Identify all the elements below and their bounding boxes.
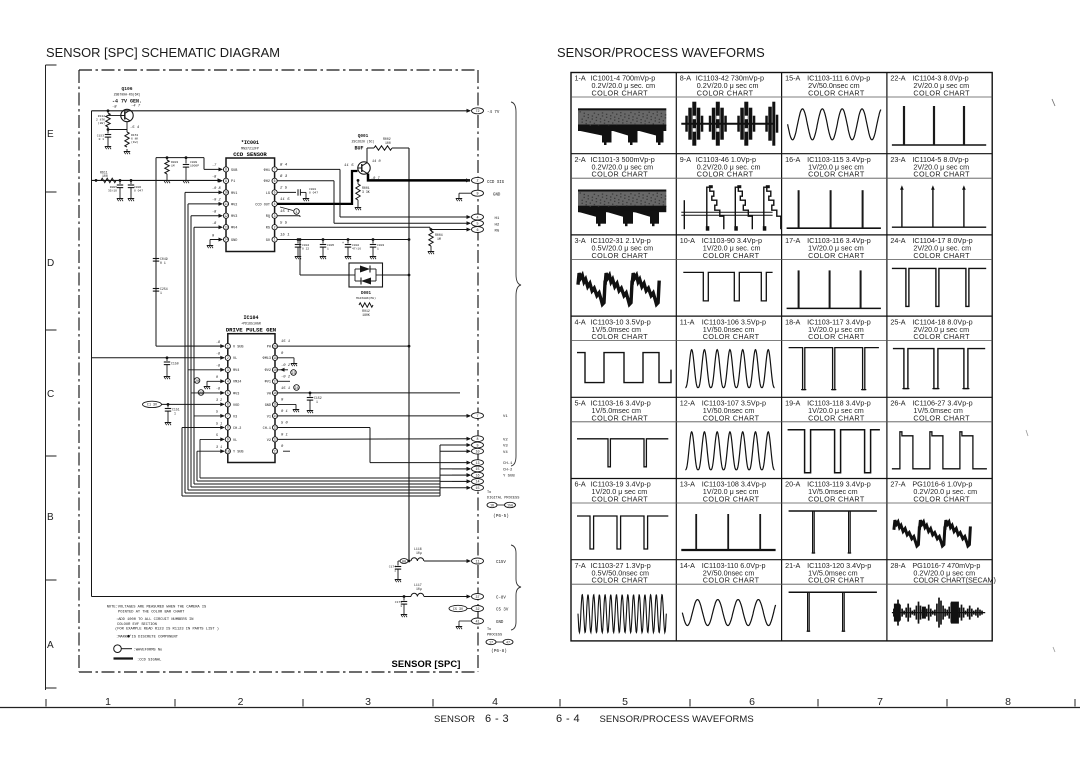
svg-text:17: 17	[273, 380, 277, 384]
svg-text:(2W): (2W)	[98, 121, 105, 125]
svg-text:0: 0	[216, 376, 218, 380]
svg-text:-5 4: -5 4	[130, 126, 140, 130]
svg-text:5: 5	[216, 411, 218, 415]
svg-text:CCD SIG: CCD SIG	[487, 181, 505, 185]
svg-text:COLOR CHART: COLOR CHART	[913, 170, 970, 179]
svg-text:10-A: 10-A	[680, 236, 695, 245]
svg-text:15-A: 15-A	[785, 74, 800, 83]
svg-text:MA150WK(M8): MA150WK(M8)	[356, 296, 376, 300]
svg-text:ΦH2: ΦH2	[264, 179, 270, 184]
svg-text:(P6-5): (P6-5)	[493, 514, 509, 519]
svg-text:150: 150	[507, 504, 513, 508]
svg-text:0: 0	[281, 352, 284, 356]
svg-text:ΦV2: ΦV2	[265, 368, 271, 373]
svg-text:12: 12	[273, 438, 277, 442]
svg-text:C003: C003	[377, 244, 384, 247]
svg-text:19-A: 19-A	[785, 399, 800, 408]
svg-text:V3: V3	[503, 445, 508, 449]
svg-text:SUB: SUB	[231, 169, 237, 173]
svg-text:8-A: 8-A	[680, 74, 691, 83]
svg-text:0 1: 0 1	[99, 138, 105, 141]
svg-text:CH-2: CH-2	[503, 469, 513, 473]
svg-text:16: 16	[475, 474, 479, 478]
svg-text:21-A: 21-A	[785, 561, 800, 570]
svg-text:ΦV1: ΦV1	[231, 191, 237, 196]
svg-text:D005: D005	[110, 186, 117, 189]
svg-text:13-A: 13-A	[680, 480, 695, 489]
svg-text:C5 3V: C5 3V	[453, 608, 464, 612]
svg-text:COLOR CHART: COLOR CHART	[703, 576, 760, 585]
svg-text:11: 11	[475, 560, 479, 564]
svg-text:14: 14	[273, 414, 277, 418]
svg-text:23-A: 23-A	[890, 155, 905, 164]
svg-text:Q001: Q001	[358, 134, 369, 139]
svg-text:14 0: 14 0	[372, 160, 381, 164]
svg-text:1: 1	[394, 570, 396, 573]
svg-text:ΦH1: ΦH1	[264, 168, 270, 173]
svg-text:-0 2: -0 2	[212, 199, 221, 203]
svg-text:24: 24	[294, 387, 298, 391]
svg-text:C150: C150	[171, 362, 179, 366]
svg-text:COLOR CHART: COLOR CHART	[592, 89, 649, 98]
svg-text:5 5: 5 5	[280, 221, 288, 225]
svg-text:19: 19	[273, 356, 277, 360]
svg-text:9: 9	[476, 193, 478, 197]
svg-text:3 1: 3 1	[216, 446, 222, 450]
svg-text:13: 13	[224, 225, 228, 229]
svg-text:ΦV4: ΦV4	[231, 226, 237, 231]
svg-text:6: 6	[476, 229, 478, 233]
svg-text:0: 0	[212, 234, 215, 238]
svg-text:15 1: 15 1	[281, 340, 290, 344]
svg-text:-7: -7	[212, 164, 217, 168]
svg-text:2: 2	[476, 180, 478, 184]
svg-text:4-A: 4-A	[575, 317, 586, 326]
svg-text:-8: -8	[216, 365, 220, 369]
svg-text:15 1: 15 1	[280, 210, 290, 214]
svg-text:ΦV3: ΦV3	[231, 214, 237, 219]
svg-text:13: 13	[273, 426, 277, 430]
svg-text:A: A	[47, 640, 54, 651]
svg-text:(P6-8): (P6-8)	[491, 649, 507, 654]
svg-text:PH: PH	[267, 346, 271, 350]
svg-text:4: 4	[227, 380, 229, 384]
svg-text:6 - 3: 6 - 3	[485, 713, 509, 725]
svg-text:100: 100	[385, 141, 391, 145]
svg-text:C-8V: C-8V	[496, 597, 506, 601]
svg-text:SENSOR/PROCESS WAVEFORMS: SENSOR/PROCESS WAVEFORMS	[600, 714, 754, 725]
svg-text:COLOR CHART: COLOR CHART	[808, 332, 865, 341]
svg-text:1000P: 1000P	[190, 165, 199, 168]
svg-text:14: 14	[475, 481, 479, 485]
svg-text:1: 1	[295, 211, 297, 215]
svg-text:COLOR CHART(SECAM): COLOR CHART(SECAM)	[913, 576, 996, 585]
svg-text:COLOR CHART: COLOR CHART	[592, 576, 649, 585]
svg-text:IC104: IC104	[243, 315, 258, 321]
svg-text:5-A: 5-A	[575, 399, 586, 408]
svg-text:0 1: 0 1	[281, 433, 288, 437]
svg-text:VH: VH	[267, 392, 271, 396]
svg-text:COLOR CHART: COLOR CHART	[808, 495, 865, 504]
svg-text:CCD SENSOR: CCD SENSOR	[233, 151, 267, 158]
svg-text:COLOR CHART: COLOR CHART	[913, 495, 970, 504]
svg-text:-8: -8	[216, 388, 220, 392]
svg-text:3: 3	[365, 696, 371, 708]
svg-text:B: B	[47, 512, 54, 523]
svg-text:ΦV4: ΦV4	[233, 368, 239, 373]
svg-text:6: 6	[227, 403, 229, 407]
svg-text:3: 3	[274, 214, 276, 218]
svg-text:1-A: 1-A	[575, 74, 586, 83]
svg-text:2: 2	[274, 225, 276, 229]
svg-text:C174: C174	[389, 566, 396, 569]
svg-text:8: 8	[227, 426, 229, 430]
svg-text:CH-1: CH-1	[263, 427, 271, 431]
svg-text:*IC001: *IC001	[241, 140, 259, 146]
svg-text:11-A: 11-A	[680, 317, 695, 326]
svg-text:2SC2620 (6C): 2SC2620 (6C)	[352, 140, 375, 144]
svg-text:C006: C006	[134, 186, 141, 189]
svg-text:4: 4	[274, 202, 276, 206]
svg-text:18-A: 18-A	[785, 317, 800, 326]
svg-text:C004: C004	[302, 244, 309, 247]
svg-text:3 2: 3 2	[216, 399, 222, 403]
svg-text:11: 11	[224, 202, 228, 206]
svg-text:8 4: 8 4	[280, 164, 288, 168]
svg-text:COLOR CHART: COLOR CHART	[703, 495, 760, 504]
svg-text:NOTE:VOLTAGES ARE MEASURED WHE: NOTE:VOLTAGES ARE MEASURED WHEN THE CAME…	[107, 606, 207, 610]
svg-text:4: 4	[476, 216, 478, 220]
svg-text:C: C	[47, 389, 54, 400]
svg-text:7: 7	[274, 168, 276, 172]
svg-text:0: 0	[281, 445, 284, 449]
svg-text:0 1: 0 1	[281, 410, 288, 414]
svg-text:35/10: 35/10	[108, 189, 117, 193]
svg-text:5: 5	[622, 696, 628, 708]
svg-text:8 3: 8 3	[280, 175, 288, 179]
svg-text:C1 3V: C1 3V	[147, 404, 158, 408]
svg-text:D: D	[47, 258, 54, 269]
svg-text:72: 72	[475, 110, 479, 114]
svg-text:COLOR CHART: COLOR CHART	[913, 413, 970, 422]
svg-text:2: 2	[227, 356, 229, 360]
svg-text:-8: -8	[216, 353, 220, 357]
svg-text:27-A: 27-A	[890, 480, 905, 489]
svg-text:COLOR CHART: COLOR CHART	[913, 332, 970, 341]
svg-text:COLOR CHART: COLOR CHART	[808, 251, 865, 260]
svg-text:1: 1	[160, 291, 162, 295]
svg-text:CH-2: CH-2	[233, 427, 241, 431]
svg-text:00: 00	[402, 560, 406, 564]
svg-text:47/16: 47/16	[352, 246, 361, 250]
svg-text:32: 32	[475, 608, 479, 612]
svg-text:GND: GND	[493, 193, 501, 197]
svg-text:VM24: VM24	[233, 381, 241, 385]
svg-text:1: 1	[400, 605, 402, 608]
svg-text:1: 1	[105, 696, 111, 708]
svg-text:16-A: 16-A	[785, 155, 800, 164]
svg-text:8: 8	[225, 168, 227, 172]
svg-text:-8: -8	[112, 106, 117, 110]
svg-text:10μ: 10μ	[416, 587, 422, 591]
svg-text:17-A: 17-A	[785, 236, 800, 245]
svg-text:H2: H2	[495, 223, 500, 227]
svg-text:10μ: 10μ	[416, 551, 422, 555]
svg-text:COLOR CHART: COLOR CHART	[592, 251, 649, 260]
svg-text:GND: GND	[265, 404, 271, 408]
svg-text:V1: V1	[503, 415, 508, 419]
svg-text:MN37212FP: MN37212FP	[241, 147, 259, 151]
svg-text:15 1: 15 1	[280, 234, 290, 238]
svg-text:1: 1	[377, 247, 379, 250]
svg-text:COLOR CHART: COLOR CHART	[808, 413, 865, 422]
svg-text:To: To	[487, 491, 491, 495]
svg-text:C5 3V: C5 3V	[496, 609, 509, 613]
svg-text:6 - 4: 6 - 4	[556, 713, 580, 725]
svg-text:D001: D001	[361, 292, 372, 296]
svg-text:COLOR CHART: COLOR CHART	[697, 170, 754, 179]
svg-text:ΦM13: ΦM13	[263, 356, 271, 361]
svg-text:DIGITAL PROCESS: DIGITAL PROCESS	[487, 497, 519, 501]
svg-text:9-A: 9-A	[680, 155, 691, 164]
svg-text:RQ: RQ	[266, 215, 270, 219]
svg-text:20: 20	[195, 380, 199, 384]
svg-text:12: 12	[224, 214, 228, 218]
svg-text:GND: GND	[231, 239, 237, 243]
svg-text:9: 9	[225, 179, 227, 183]
svg-text:100: 100	[102, 174, 108, 178]
svg-text:41: 41	[475, 620, 479, 624]
svg-text:15 1: 15 1	[281, 387, 290, 391]
svg-text:23: 23	[291, 372, 295, 376]
svg-text:16: 16	[490, 504, 494, 508]
svg-text:COLOR CHART: COLOR CHART	[592, 332, 649, 341]
svg-text:1: 1	[174, 412, 176, 416]
svg-text:10: 10	[224, 191, 228, 195]
svg-text:Y SUB: Y SUB	[233, 451, 244, 455]
svg-text:COLOR CHART: COLOR CHART	[913, 251, 970, 260]
svg-text:1: 1	[327, 247, 329, 250]
svg-text:37: 37	[475, 596, 479, 600]
svg-text:0 22: 0 22	[302, 247, 309, 250]
svg-text:14-A: 14-A	[680, 561, 695, 570]
svg-text:2SB709A-RS(6R): 2SB709A-RS(6R)	[114, 93, 141, 97]
svg-text:11: 11	[273, 449, 277, 453]
svg-text::MARK °IS DISCRETE COMPONE: :MARK °IS DISCRETE COMPONENT	[116, 635, 179, 640]
svg-text:0 047: 0 047	[134, 190, 143, 193]
svg-text:11 5: 11 5	[280, 198, 290, 202]
svg-text:-8: -8	[212, 211, 217, 215]
svg-text:P1: P1	[231, 180, 235, 184]
svg-text:+PD16510GR: +PD16510GR	[241, 322, 261, 326]
svg-text:24-A: 24-A	[890, 236, 905, 245]
svg-text:47: 47	[506, 641, 510, 645]
svg-text:-0 7: -0 7	[371, 177, 380, 181]
svg-text:LG: LG	[266, 192, 270, 196]
svg-text:C173: C173	[395, 601, 402, 604]
svg-text:13: 13	[475, 462, 479, 466]
svg-text:BUF: BUF	[354, 146, 363, 152]
svg-text:11 5: 11 5	[344, 164, 354, 168]
svg-text:(FOR EXAMPLE READ R123 IS R112: (FOR EXAMPLE READ R123 IS R1123 IN PARTS…	[115, 627, 219, 632]
svg-text:7: 7	[227, 414, 229, 418]
svg-text:SENSOR [SPC]: SENSOR [SPC]	[392, 658, 461, 669]
svg-text:0 1: 0 1	[160, 261, 166, 265]
svg-text:10: 10	[475, 451, 479, 455]
svg-text:Y SUB: Y SUB	[503, 475, 515, 479]
svg-text:COLOR CHART: COLOR CHART	[913, 89, 970, 98]
svg-text:1M: 1M	[437, 237, 441, 241]
svg-text:8: 8	[1005, 696, 1011, 708]
svg-text:1M: 1M	[171, 165, 175, 168]
svg-text:V1: V1	[267, 415, 271, 419]
svg-text::WAVEFORMS No: :WAVEFORMS No	[134, 649, 163, 653]
svg-text:COLOR CHART: COLOR CHART	[808, 576, 865, 585]
svg-text:ΦV1: ΦV1	[265, 380, 271, 385]
svg-text:C005: C005	[327, 244, 334, 247]
svg-text:-4 7: -4 7	[131, 105, 141, 109]
svg-text:5: 5	[274, 191, 276, 195]
svg-text:7-A: 7-A	[575, 561, 586, 570]
svg-text:1: 1	[227, 344, 229, 348]
svg-text:GO: GO	[266, 239, 270, 243]
svg-text:COLOR CHART: COLOR CHART	[592, 413, 649, 422]
svg-text:1: 1	[274, 238, 276, 242]
svg-text:7: 7	[877, 696, 883, 708]
svg-text:ΦV2: ΦV2	[231, 202, 237, 207]
svg-text:V4: V4	[503, 451, 508, 455]
svg-text:To: To	[487, 628, 491, 632]
svg-text:COLOR CHART: COLOR CHART	[703, 332, 760, 341]
svg-text:2-A: 2-A	[575, 155, 586, 164]
svg-text::ADD 1000 TO ALL CIRCUIT NUMBE: :ADD 1000 TO ALL CIRCUIT NUMBERS IN	[116, 618, 193, 622]
svg-text:PROCESS: PROCESS	[487, 634, 502, 638]
svg-text:COLOR CHART: COLOR CHART	[697, 89, 754, 98]
svg-text:20-A: 20-A	[785, 480, 800, 489]
svg-text:180K: 180K	[362, 313, 370, 317]
svg-text:12-A: 12-A	[680, 399, 695, 408]
svg-text:C002: C002	[352, 244, 359, 247]
svg-text:C001: C001	[309, 188, 316, 191]
svg-text:V2: V2	[503, 438, 508, 442]
svg-text:0 047: 0 047	[309, 192, 318, 195]
svg-text:-4 7V: -4 7V	[487, 111, 500, 115]
svg-text:(1W): (1W)	[131, 140, 138, 144]
svg-text:15: 15	[475, 468, 479, 472]
svg-text:-8: -8	[216, 341, 220, 345]
svg-text:COLOR CHART: COLOR CHART	[808, 89, 865, 98]
svg-text:2: 2	[238, 696, 244, 708]
svg-text:ΦV3: ΦV3	[233, 391, 239, 396]
svg-text:-8: -8	[212, 222, 217, 226]
svg-text:0: 0	[281, 398, 284, 402]
svg-text:1: 1	[316, 400, 318, 404]
svg-text:15: 15	[475, 487, 479, 491]
svg-text:VL: VL	[233, 439, 237, 443]
svg-text:9: 9	[476, 444, 478, 448]
svg-text:SENSOR/PROCESS WAVEFORMS: SENSOR/PROCESS WAVEFORMS	[557, 45, 765, 60]
svg-text:2 5: 2 5	[280, 187, 288, 191]
svg-text:V SUB: V SUB	[233, 346, 244, 350]
svg-text:14: 14	[224, 238, 228, 242]
svg-text:17: 17	[489, 641, 493, 645]
svg-text:H1: H1	[495, 217, 500, 221]
svg-text:V3: V3	[233, 415, 237, 419]
svg-text:3-A: 3-A	[575, 236, 586, 245]
svg-text:6: 6	[749, 696, 755, 708]
svg-text:COLOR CHART: COLOR CHART	[808, 170, 865, 179]
svg-text:RG: RG	[495, 230, 500, 234]
svg-text:SENSOR: SENSOR	[434, 714, 475, 725]
svg-text:POINTED AT THE COLOR BAR CHART: POINTED AT THE COLOR BAR CHART	[118, 610, 185, 614]
svg-text:6: 6	[274, 179, 276, 183]
svg-text:VOD: VOD	[233, 404, 239, 408]
svg-text:5: 5	[227, 391, 229, 395]
svg-text:18: 18	[273, 368, 277, 372]
svg-text:25-A: 25-A	[890, 317, 905, 326]
svg-text:R003: R003	[171, 161, 178, 164]
svg-text:3: 3	[227, 368, 229, 372]
svg-text:C15V: C15V	[496, 561, 506, 565]
svg-text::CCD SIGNAL: :CCD SIGNAL	[137, 658, 161, 662]
svg-text:GND: GND	[496, 621, 504, 625]
svg-text:RS: RS	[266, 227, 270, 231]
svg-text:5: 5	[476, 223, 478, 227]
svg-text:VL: VL	[233, 357, 237, 361]
svg-text:+: +	[342, 242, 344, 246]
svg-text:DRIVE PULSE GEN: DRIVE PULSE GEN	[226, 327, 276, 334]
svg-text:8: 8	[476, 438, 478, 442]
svg-text:E: E	[47, 129, 54, 140]
svg-text:-0 2: -0 2	[281, 375, 291, 379]
svg-text:9: 9	[227, 438, 229, 442]
svg-text:5 0: 5 0	[281, 422, 289, 426]
svg-text:-0 2: -0 2	[281, 364, 291, 368]
svg-text:CCD OUT: CCD OUT	[255, 203, 270, 207]
svg-text:6-A: 6-A	[575, 480, 586, 489]
svg-text:SENSOR [SPC] SCHEMATIC DIAGRAM: SENSOR [SPC] SCHEMATIC DIAGRAM	[46, 45, 280, 60]
svg-text:V2: V2	[267, 439, 271, 443]
svg-text:-0 8: -0 8	[212, 187, 221, 191]
svg-text:COLOR CHART: COLOR CHART	[592, 495, 649, 504]
svg-text:COLOR CHART: COLOR CHART	[703, 251, 760, 260]
svg-text:10: 10	[226, 449, 230, 453]
svg-text:3 3K: 3 3K	[362, 190, 370, 194]
svg-text:C009: C009	[190, 161, 197, 164]
svg-text:16: 16	[273, 391, 277, 395]
svg-text:-8: -8	[212, 176, 217, 180]
svg-text:COLOR CHART: COLOR CHART	[703, 413, 760, 422]
svg-text:28-A: 28-A	[890, 561, 905, 570]
svg-text:22-A: 22-A	[890, 74, 905, 83]
svg-text:Q106: Q106	[121, 86, 132, 92]
svg-text:26-A: 26-A	[890, 399, 905, 408]
svg-text:7: 7	[476, 415, 478, 419]
svg-text:5: 5	[216, 434, 218, 438]
svg-text:15: 15	[273, 403, 277, 407]
svg-text:COLOUR EVF SECTION: COLOUR EVF SECTION	[117, 623, 157, 627]
svg-text:5 1: 5 1	[216, 422, 222, 426]
svg-text:COLOR CHART: COLOR CHART	[592, 170, 649, 179]
svg-text:4: 4	[492, 696, 498, 708]
svg-text:20: 20	[273, 344, 277, 348]
